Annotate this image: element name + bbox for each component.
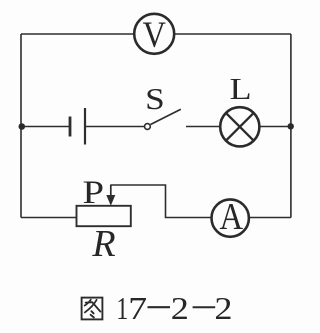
svg-text:2: 2	[171, 291, 189, 326]
svg-text:P: P	[83, 175, 105, 211]
svg-text:R: R	[91, 223, 115, 265]
svg-text:1: 1	[116, 291, 128, 326]
svg-text:7: 7	[128, 291, 147, 326]
svg-text:2: 2	[214, 291, 232, 326]
svg-text:A: A	[220, 196, 244, 238]
svg-text:L: L	[230, 71, 252, 106]
svg-text:S: S	[145, 81, 165, 116]
svg-text:V: V	[143, 15, 167, 56]
